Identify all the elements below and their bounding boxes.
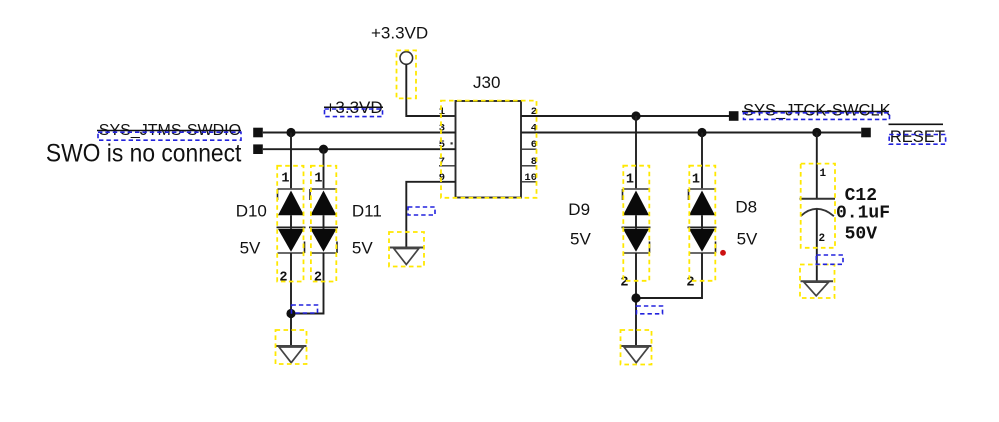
net label RESET (active low) [889,124,946,146]
svg-text:D8: D8 [735,198,757,217]
wire D9 pin2 to ground [635,253,637,346]
svg-text:1: 1 [281,172,289,187]
svg-text:2: 2 [686,276,694,291]
selection box ground J30 [389,232,424,267]
selection box ground C12 [800,265,835,299]
junction D9/D8 [631,293,640,302]
wire pin 2 to SYS_JTCK-SWCLK [521,115,729,117]
svg-text:5V: 5V [737,230,758,249]
selection box ground D9 [621,330,652,365]
svg-text:5V: 5V [240,239,261,258]
terminal square SWO [253,144,263,154]
svg-text:+3.3VD: +3.3VD [371,23,428,42]
diode D11 (TVS) [309,149,338,285]
pin 8 stub [521,165,537,167]
wire pin 4 to RESET [521,132,861,134]
wire D10 pin2 to ground [290,253,292,346]
terminal square SYS_JTMS-SWDIO [253,128,263,138]
net label SYS_JTMS-SWDIO (struck) [97,122,241,140]
svg-text:D10: D10 [236,202,267,221]
selection box D8 [689,166,715,281]
selection box D11 [311,166,336,282]
ground under D9/D8 [621,346,652,363]
pin 3 stub [439,132,456,134]
pin 2 stub [521,115,537,117]
power symbol circle [400,52,413,65]
svg-text:SWO is no connect: SWO is no connect [46,139,242,167]
ground under D10/D11 [276,346,307,363]
diode D9 (TVS) [620,116,650,291]
svg-text:50V: 50V [845,225,878,245]
svg-text:1: 1 [820,168,827,180]
terminal square RESET [861,128,871,138]
wire power stem [406,65,455,117]
wire pin 9 to ground [406,182,455,248]
selection box ground D10 [276,330,307,364]
svg-text:10: 10 [524,172,537,184]
svg-text:2: 2 [314,271,322,286]
junction at D9 [631,111,640,120]
red dot [720,250,726,256]
svg-text:1: 1 [314,172,322,187]
blue net stub box near C12 ground [816,255,843,264]
diode D8 (TVS) [686,133,716,291]
svg-text:D11: D11 [352,202,382,221]
pin 1 stub [439,115,456,117]
pin 5 stub [439,148,456,150]
svg-text:0.1uF: 0.1uF [836,204,890,224]
pin 6 stub [521,148,537,150]
net label +3.3VD (struck) [324,98,383,117]
connector J30 body [456,101,522,198]
pin 7 stub [439,165,456,167]
svg-text:2: 2 [819,233,826,245]
blue net stub box near J30 ground [408,207,435,215]
selection box D9 [623,166,649,281]
wire SYS_JTMS-SWDIO to pin 3 [263,132,456,134]
wire D11 pin2 down and left [291,253,324,314]
pin 10 stub [521,181,537,183]
svg-text:1: 1 [692,173,700,188]
blue net stub box near D10 junction [292,305,318,313]
pin 9 stub [439,181,456,183]
selection box J30 [441,101,537,198]
pin 4 stub [521,132,537,134]
terminal square SYS_JTCK-SWCLK [729,111,739,121]
ground under C12 [801,281,834,296]
svg-text:D9: D9 [568,200,590,219]
junction at D11 [319,145,328,154]
svg-text:1: 1 [626,173,634,188]
svg-text:5V: 5V [352,239,373,258]
junction at C12 [812,128,821,137]
junction at D10 [286,128,295,137]
selection box C12 [801,164,835,248]
svg-text:5V: 5V [570,230,591,249]
blue net stub box near D9 junction [637,306,663,314]
diode D10 (TVS) [277,133,306,286]
net label SYS_JTCK-SWCLK (struck) [742,102,891,120]
svg-text:2: 2 [279,271,287,286]
wire D8 pin2 down and left [636,253,702,298]
selection box power symbol [397,50,417,98]
junction at D8 [697,128,706,137]
ground under J30 pin 9 [390,248,424,265]
svg-text:2: 2 [620,276,628,291]
capacitor C12 [800,133,836,282]
wire SWO to pin 5 [263,148,456,150]
svg-text:SYS_JTCK-SWCLK: SYS_JTCK-SWCLK [743,102,891,120]
selection box D10 [277,166,303,282]
svg-text:J30: J30 [473,73,500,92]
stray dot after pin 5 [451,142,453,144]
junction D10/D11 [286,309,295,318]
